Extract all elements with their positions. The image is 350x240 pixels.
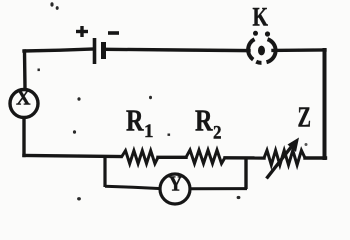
svg-text:R: R	[126, 103, 144, 138]
battery B1	[95, 38, 104, 64]
meter X	[10, 84, 38, 117]
svg-text:2: 2	[213, 122, 222, 143]
wire left vertical upper	[23, 51, 27, 88]
wire Z to right corner	[305, 156, 326, 159]
svg-text:Y: Y	[169, 172, 183, 196]
svg-text:K: K	[253, 3, 269, 32]
svg-text:1: 1	[144, 121, 154, 142]
wire Y-branch left horizontal	[105, 186, 161, 188]
resistor R2	[186, 150, 225, 164]
wire top-right horizontal	[273, 48, 325, 52]
resistor R1	[122, 151, 159, 164]
battery minus label	[108, 31, 119, 35]
battery plus label	[76, 26, 88, 37]
wire top-left horizontal	[24, 49, 93, 51]
rheostat Z zigzag	[264, 150, 305, 165]
wire left vertical lower	[22, 118, 25, 156]
wire between R1 and R2	[158, 156, 186, 159]
wire right vertical	[323, 50, 327, 158]
svg-text:X: X	[16, 84, 31, 109]
wire bottom left segment	[24, 156, 121, 157]
rheostat Z arrow	[267, 138, 300, 179]
svg-text:Z: Z	[298, 103, 312, 134]
wire top middle horizontal	[106, 49, 249, 50]
wire Y-branch right vertical (junction at R2 right)	[244, 158, 247, 189]
svg-text:R: R	[195, 103, 213, 138]
wire Y-branch left vertical (junction at R1 left)	[103, 157, 106, 187]
wire between R2 and Z	[225, 156, 264, 160]
key K	[248, 31, 275, 63]
scan noise specks (decorative)	[38, 2, 308, 200]
wire Y-branch right horizontal	[189, 187, 247, 190]
meter Y	[160, 172, 190, 204]
